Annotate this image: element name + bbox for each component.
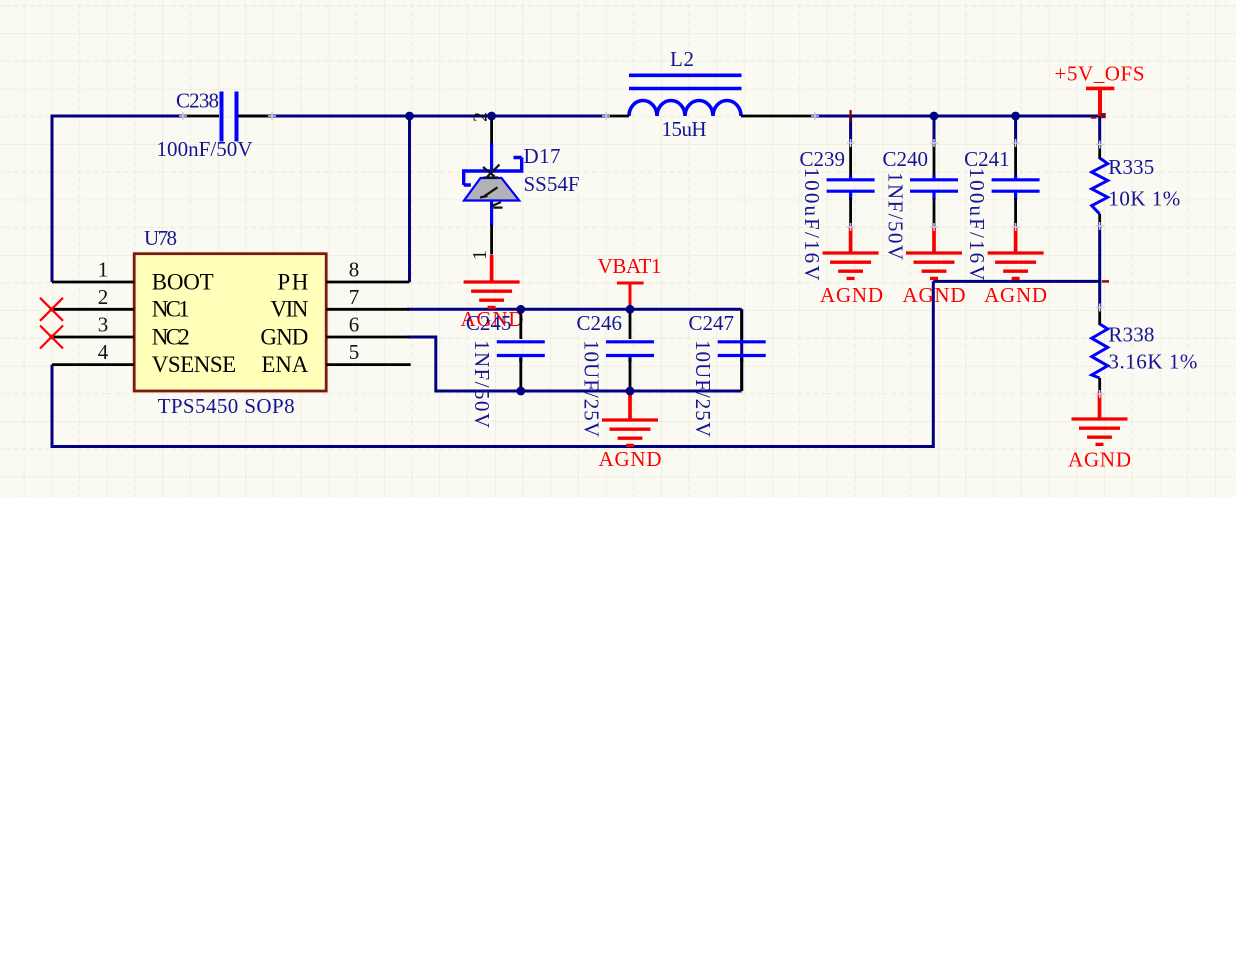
junction C245 bottom node xyxy=(516,387,525,396)
svg-text:AGND: AGND xyxy=(984,283,1047,307)
svg-text:VBAT1: VBAT1 xyxy=(598,254,662,278)
svg-text:10UF/25V: 10UF/25V xyxy=(691,340,715,437)
inductor L2 pin stubs xyxy=(606,115,815,118)
svg-text:C238: C238 xyxy=(176,89,219,113)
wire R338 top xyxy=(1098,281,1101,308)
ground AGND (C239) xyxy=(823,226,879,278)
svg-text:7: 7 xyxy=(349,285,360,309)
svg-text:C245: C245 xyxy=(466,311,512,335)
diode D17 pin 2 wire (top, black) xyxy=(490,116,493,144)
label C245 xyxy=(466,311,512,335)
power port +5V_OFS xyxy=(1086,88,1114,116)
resistor R338 xyxy=(1092,307,1108,395)
svg-text:4: 4 xyxy=(98,340,109,364)
ground AGND (R338) xyxy=(1072,392,1128,444)
wire GND net from pin6: right, down, bottom cap rail xyxy=(407,337,742,391)
label R335 xyxy=(1108,155,1154,179)
svg-text:ENA: ENA xyxy=(261,352,308,377)
pin number 4 xyxy=(98,340,109,364)
schematic sheet background xyxy=(0,0,1236,497)
svg-text:SS54F: SS54F xyxy=(524,172,580,196)
pin number 6 xyxy=(349,313,360,337)
ground AGND (C241) xyxy=(988,226,1044,278)
svg-text:BOOT: BOOT xyxy=(152,269,214,294)
label AGND (diode) xyxy=(461,307,524,331)
value 1NF/50V (vertical) xyxy=(470,340,494,428)
junction C241 node xyxy=(1011,112,1020,121)
pin name GND xyxy=(260,324,308,349)
op-amp U78 body (TPS5450 SOP8) xyxy=(134,254,326,391)
pin 8 (PH) xyxy=(326,281,409,284)
ground AGND (C246) xyxy=(602,393,658,445)
compile marker C239 tap xyxy=(849,110,851,122)
pin 2 (NC1) xyxy=(52,308,134,311)
diode D17 pin number marks at cathode xyxy=(483,165,500,178)
diode D17 body triangle xyxy=(464,178,519,201)
power port VBAT1 xyxy=(617,283,644,309)
pin number 1 xyxy=(98,258,109,282)
pin name VSENSE xyxy=(152,352,237,377)
junction C246 bottom node xyxy=(626,387,635,396)
label AGND (C240) xyxy=(903,283,966,307)
svg-text:AGND: AGND xyxy=(1068,448,1131,472)
diode D17 pin number 2 (rotated) xyxy=(470,112,492,122)
value 3.16K 1% xyxy=(1108,350,1197,374)
capacitor C240 xyxy=(910,143,958,227)
svg-text:VSENSE: VSENSE xyxy=(152,352,237,377)
resistor R335 xyxy=(1092,146,1108,227)
svg-text:TPS5450 SOP8: TPS5450 SOP8 xyxy=(158,394,295,418)
label VBAT1 xyxy=(598,254,662,278)
svg-text:10UF/25V: 10UF/25V xyxy=(580,340,604,437)
label AGND (C239) xyxy=(820,283,883,307)
label L2 xyxy=(670,47,694,71)
svg-text:GND: GND xyxy=(260,324,308,349)
value 100uF/16V (vertical) xyxy=(800,168,824,281)
value 10UF/25V (vertical) xyxy=(691,340,715,437)
svg-text:R335: R335 xyxy=(1108,155,1154,179)
diode D17 schottky cathode bar xyxy=(464,158,522,186)
label R338 xyxy=(1108,323,1154,347)
label C247 xyxy=(689,311,735,335)
capacitor C241 xyxy=(992,143,1040,227)
svg-text:AGND: AGND xyxy=(903,283,966,307)
svg-text:1NF/50V: 1NF/50V xyxy=(884,172,908,260)
value 10K 1% xyxy=(1108,187,1180,211)
no-connect X on pin 2 xyxy=(40,298,63,321)
label AGND (C246) xyxy=(599,447,662,471)
wire R335 bottom to divider junction xyxy=(1098,226,1101,281)
svg-text:D17: D17 xyxy=(524,144,561,168)
diode D17 cathode lead (blue) xyxy=(490,143,493,171)
pin number 2 xyxy=(98,285,109,309)
svg-text:10K 1%: 10K 1% xyxy=(1108,187,1180,211)
svg-text:15uH: 15uH xyxy=(662,117,707,141)
label C239 xyxy=(800,147,846,171)
label C240 xyxy=(883,147,929,171)
value 15uH xyxy=(662,117,707,141)
value 10UF/25V (vertical) xyxy=(580,340,604,437)
label C241 xyxy=(964,147,1010,171)
pin name ENA xyxy=(261,352,308,377)
diode D17 pin 1 wire (bottom, black) xyxy=(490,225,493,255)
compile marker divider junction xyxy=(1102,280,1109,282)
svg-text:NC1: NC1 xyxy=(152,297,190,322)
pin name VIN xyxy=(270,297,308,322)
wire top rail inductor right to +5V corner xyxy=(815,115,1100,118)
value TPS5450 SOP8 xyxy=(158,394,295,418)
svg-text:8: 8 xyxy=(349,258,360,282)
wire C247 right vertical between rails xyxy=(740,309,743,391)
svg-text:VIN: VIN xyxy=(270,297,308,322)
svg-text:PH: PH xyxy=(277,269,308,294)
label D17 xyxy=(524,144,561,168)
wire net BOOT: left vertical from pin1 up to top rail xyxy=(52,116,183,282)
svg-text:C247: C247 xyxy=(689,311,735,335)
svg-text:6: 6 xyxy=(349,313,360,337)
pin number 8 xyxy=(349,258,360,282)
pin name NC1 xyxy=(152,297,190,322)
wire C240 drop xyxy=(933,116,936,144)
wire +5V vertical down to R335 xyxy=(1098,116,1101,147)
svg-text:2: 2 xyxy=(98,285,109,309)
capacitor C247 xyxy=(718,309,766,391)
value SS54F xyxy=(524,172,580,196)
value 100uF/16V (vertical) xyxy=(965,168,989,281)
svg-text:+5V_OFS: +5V_OFS xyxy=(1055,62,1145,86)
diode D17 pin number marks at anode xyxy=(480,187,503,207)
label U78 xyxy=(144,226,177,250)
wire PH vertical xyxy=(408,116,411,282)
diode D17 anode lead (blue) xyxy=(490,201,493,227)
svg-text:100nF/50V: 100nF/50V xyxy=(157,137,253,161)
capacitor C246 xyxy=(606,309,654,391)
pin number 7 xyxy=(349,285,360,309)
no-connect X on pin 3 xyxy=(40,326,63,349)
pin end markers (pale blue) xyxy=(179,112,1104,398)
junction PH node xyxy=(405,112,414,121)
svg-text:3.16K 1%: 3.16K 1% xyxy=(1108,350,1197,374)
svg-text:L2: L2 xyxy=(670,47,694,71)
svg-text:1: 1 xyxy=(469,250,491,260)
diode D17 pin number 1 (rotated) xyxy=(469,250,491,260)
pin 3 (NC2) xyxy=(52,336,134,339)
svg-text:C240: C240 xyxy=(883,147,929,171)
wire VSENSE net: pin4 left, down, across bottom, up to divider xyxy=(52,281,933,446)
sheet grid xyxy=(0,0,1236,497)
pin 6 (GND) xyxy=(326,336,409,339)
value 100nF/50V xyxy=(157,137,253,161)
pin name NC2 xyxy=(152,324,190,349)
compile marker +5V corner xyxy=(1091,113,1106,118)
pin 4 (VSENSE) xyxy=(52,363,134,366)
capacitor C245 xyxy=(497,309,545,391)
label AGND (R338) xyxy=(1068,448,1131,472)
svg-text:U78: U78 xyxy=(144,226,177,250)
junction diode node xyxy=(487,112,496,121)
ground AGND (diode) xyxy=(464,255,520,307)
wire top rail segment C238 right to PH junction xyxy=(238,115,410,118)
pin 1 (BOOT) xyxy=(52,281,134,284)
svg-text:3: 3 xyxy=(98,313,109,337)
wire divider junction horizontal to feedback vertical xyxy=(933,280,1101,283)
svg-text:AGND: AGND xyxy=(820,283,883,307)
capacitor C239 xyxy=(827,143,875,227)
label C238 xyxy=(176,89,219,113)
label C246 xyxy=(577,311,623,335)
svg-text:5: 5 xyxy=(349,340,360,364)
junction C245 top node xyxy=(516,305,525,314)
pin 7 (VIN) xyxy=(326,308,409,311)
svg-text:C246: C246 xyxy=(577,311,623,335)
label +5V_OFS xyxy=(1055,62,1145,86)
pin number 3 xyxy=(98,313,109,337)
inductor L2 xyxy=(629,75,742,116)
svg-text:NC2: NC2 xyxy=(152,324,190,349)
svg-text:AGND: AGND xyxy=(599,447,662,471)
value 1NF/50V (vertical) xyxy=(884,172,908,260)
svg-text:R338: R338 xyxy=(1108,323,1154,347)
pin name BOOT xyxy=(152,269,214,294)
wire C239 drop xyxy=(849,116,852,144)
pin number 5 xyxy=(349,340,360,364)
pin name PH xyxy=(277,269,308,294)
wire VIN rail from pin7 to C247 xyxy=(407,308,742,311)
wire top rail PH junction to inductor xyxy=(410,115,607,118)
svg-text:1: 1 xyxy=(98,258,109,282)
junction VBAT1 node xyxy=(626,305,635,314)
pin 5 (ENA) xyxy=(326,363,411,366)
junction C240 node xyxy=(930,112,939,121)
label AGND (C241) xyxy=(984,283,1047,307)
ground AGND (C240) xyxy=(906,226,962,278)
svg-text:1NF/50V: 1NF/50V xyxy=(470,340,494,428)
capacitor C238 xyxy=(183,92,272,142)
wire C241 drop xyxy=(1014,116,1017,144)
